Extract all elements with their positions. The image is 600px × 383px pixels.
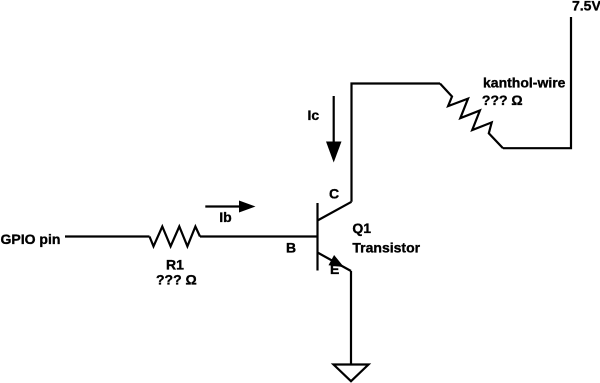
svg-text:Ic: Ic: [308, 107, 320, 123]
pin label E: [330, 261, 339, 277]
svg-text:kanthol-wire: kanthol-wire: [483, 74, 566, 90]
resistor R1: [150, 227, 201, 247]
label Transistor: [352, 239, 420, 255]
wire kanthol to 7.5V supply: [503, 17, 571, 148]
wire collector to top corner: [352, 84, 441, 202]
transistor Q1 base bar: [316, 203, 318, 271]
pin label B: [286, 240, 296, 256]
svg-text:E: E: [330, 261, 339, 277]
arrow Ib: [205, 201, 255, 213]
wire emitter to ground: [350, 271, 352, 365]
label Ic: [308, 107, 320, 123]
svg-text:GPIO pin: GPIO pin: [1, 231, 61, 247]
wire GPIO pin to R1: [65, 235, 150, 237]
ground: [334, 365, 369, 382]
wire R1 to base node B: [200, 235, 318, 237]
svg-text:Q1: Q1: [352, 220, 371, 236]
svg-text:B: B: [286, 240, 296, 256]
svg-text:??? Ω: ??? Ω: [156, 272, 197, 288]
svg-text:7.5V: 7.5V: [572, 0, 600, 13]
net label 7.5V: [572, 0, 600, 13]
transistor Q1 emitter stub with arrow: [318, 253, 352, 272]
label R1: [166, 257, 184, 273]
svg-text:C: C: [329, 186, 339, 202]
value label ??? Ω for R1: [156, 272, 197, 288]
resistor kanthol-wire: [440, 84, 503, 149]
label kanthol-wire: [483, 74, 566, 90]
transistor Q1 collector stub: [318, 202, 352, 221]
svg-text:??? Ω: ??? Ω: [482, 92, 523, 108]
net label GPIO pin: [1, 231, 61, 247]
label Ib: [219, 209, 231, 225]
svg-text:Transistor: Transistor: [352, 239, 420, 255]
svg-text:R1: R1: [166, 257, 184, 273]
svg-text:Ib: Ib: [219, 209, 231, 225]
value label ??? Ω for kanthol-wire: [482, 92, 523, 108]
arrow Ic: [326, 96, 342, 163]
label Q1: [352, 220, 371, 236]
pin label C: [329, 186, 339, 202]
